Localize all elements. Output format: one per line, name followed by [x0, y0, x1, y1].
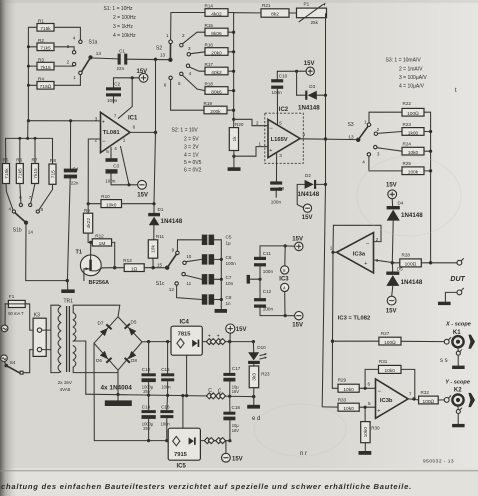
svg-text:4: 4 [73, 36, 76, 41]
wire IC3a feedback loop [331, 225, 381, 254]
svg-text:R33: R33 [338, 398, 347, 403]
svg-text:S2: 1 = 10V: S2: 1 = 10V [172, 128, 199, 134]
svg-text:BF256A: BF256A [89, 280, 110, 286]
op-amp IC3a [330, 233, 379, 273]
svg-text:100n: 100n [107, 98, 118, 103]
svg-text:C16: C16 [161, 404, 170, 409]
svg-text:R4: R4 [38, 77, 44, 82]
capacitor C5 1u [202, 234, 232, 245]
connector clips 0V rail [206, 388, 225, 399]
svg-text:10k0: 10k0 [363, 427, 369, 438]
svg-text:C3: C3 [113, 164, 119, 169]
transformer TR1 [51, 299, 120, 395]
switch S3 [348, 119, 380, 164]
svg-text:6: 6 [368, 381, 371, 386]
svg-text:5 = 0V5: 5 = 0V5 [184, 160, 202, 166]
svg-text:4: 4 [114, 146, 117, 151]
wire R6 to S1b c6 [20, 184, 21, 204]
svg-text:100n: 100n [161, 385, 171, 390]
svg-text:22n: 22n [117, 66, 125, 71]
svg-text:4 = 10kHz: 4 = 10kHz [113, 33, 136, 39]
op-amp IC2 L165V [268, 107, 306, 158]
switch S1b [9, 195, 44, 234]
svg-text:4k22: 4k22 [86, 218, 92, 229]
svg-text:100k: 100k [408, 170, 419, 176]
wire S1c c12 to C8 [177, 285, 202, 299]
svg-text:6 = 0V2: 6 = 0V2 [184, 168, 202, 174]
wire S1c c11 to C7 [185, 275, 201, 279]
svg-text:D10: D10 [257, 345, 266, 350]
svg-text:1: 1 [330, 245, 333, 250]
svg-text:100n: 100n [263, 269, 274, 274]
svg-text:R19: R19 [204, 101, 213, 106]
wire S2 c6 to R19 [171, 80, 204, 111]
svg-text:+: + [102, 120, 105, 126]
S3 current legend [386, 58, 428, 90]
regulator IC5 7915 [168, 396, 200, 470]
AC terminal upper [1, 304, 8, 332]
svg-text:2: 2 [67, 60, 70, 65]
svg-text:P1: P1 [304, 2, 310, 7]
svg-text:X - scope: X - scope [445, 321, 471, 327]
svg-text:R1: R1 [38, 18, 44, 23]
wire +15 rail to D10 [230, 340, 255, 343]
svg-text:C7: C7 [226, 275, 232, 280]
svg-text:R28: R28 [402, 252, 411, 257]
svg-text:2 = 100Hz: 2 = 100Hz [113, 15, 136, 21]
svg-text:22n: 22n [71, 181, 79, 186]
svg-text:R25: R25 [403, 161, 412, 166]
svg-text:+: + [364, 261, 367, 267]
wire IC3a output vertical (node X) [331, 225, 338, 388]
resistor R14 [205, 4, 229, 18]
svg-text:16V: 16V [232, 389, 240, 394]
svg-text:C10: C10 [279, 74, 288, 79]
capacitor C4 22n [64, 121, 79, 281]
svg-text:20k0: 20k0 [211, 50, 222, 56]
svg-text:15V: 15V [386, 309, 397, 315]
svg-text:D1: D1 [158, 207, 164, 212]
op-amp IC2 dashed box [265, 113, 304, 163]
resistor R24 [402, 142, 424, 156]
wire S1b pole to gate node [26, 225, 69, 283]
svg-text:R8: R8 [50, 158, 56, 163]
svg-text:D6: D6 [96, 358, 102, 363]
wire S3 c4 to R25 [369, 156, 402, 171]
svg-text:S4: S4 [10, 360, 16, 365]
svg-text:100Ω: 100Ω [384, 340, 396, 346]
svg-text:2x 15V: 2x 15V [58, 380, 73, 385]
svg-text:S3: 1 = 10mA/V: S3: 1 = 10mA/V [386, 58, 422, 64]
svg-text:1: 1 [364, 119, 367, 124]
svg-text:IC3 = TL082: IC3 = TL082 [338, 315, 370, 321]
svg-text:C2: C2 [114, 82, 120, 87]
svg-text:15V: 15V [292, 322, 303, 328]
supply +15V above D4 [386, 183, 397, 206]
svg-text:4: 4 [189, 71, 192, 76]
DUT terminal lower with ground [438, 288, 464, 305]
svg-text:D5: D5 [397, 267, 403, 272]
svg-text:D5: D5 [131, 320, 137, 325]
switch S1a [67, 36, 102, 80]
svg-text:R30: R30 [371, 425, 380, 430]
svg-text:1N4148: 1N4148 [298, 105, 320, 112]
svg-text:R16: R16 [205, 43, 214, 48]
wire S2 c4 to R17 [190, 67, 205, 71]
svg-text:4k02: 4k02 [211, 11, 222, 17]
wire IC2 output to S3 [300, 137, 358, 140]
resistor R9 [83, 204, 92, 233]
wire S1c c9 to C5 [177, 240, 201, 251]
wire left bus of R1-R4 [27, 27, 37, 120]
svg-text:3 = 1kHz: 3 = 1kHz [113, 24, 133, 30]
wire IC2 pin5 to C10 [276, 89, 278, 125]
svg-text:715k: 715k [40, 26, 51, 32]
potentiometer P1 [289, 2, 327, 26]
svg-text:C13: C13 [142, 367, 151, 372]
svg-text:71k5: 71k5 [18, 168, 24, 179]
svg-text:R17: R17 [205, 62, 214, 67]
label X - scope [445, 321, 471, 327]
resistor R21 [234, 3, 289, 18]
svg-text:5: 5 [279, 120, 282, 125]
capacitor C11 100n [254, 246, 285, 281]
supply +15V at IC1 [114, 69, 148, 82]
DUT terminal upper [457, 259, 464, 266]
capacitor C17 10u [223, 342, 240, 397]
svg-text:6: 6 [133, 125, 136, 130]
diode D2 [297, 173, 327, 207]
svg-text:s s: s s [440, 358, 448, 364]
capacitor C8 1n [202, 294, 232, 306]
switch S2 [156, 33, 192, 88]
caption rule [0, 470, 478, 472]
wire long vertical from P1 down (node B) [322, 13, 326, 407]
capacitor C12 100n [254, 279, 287, 317]
svg-text:10k0: 10k0 [343, 387, 354, 393]
svg-text:15V: 15V [304, 61, 315, 67]
svg-text:−: − [378, 389, 382, 395]
connector K3 [33, 312, 51, 356]
svg-text:−: − [269, 126, 273, 132]
resistor R11 [148, 234, 164, 268]
ground bar below R23 [247, 397, 260, 409]
capacitor C9 100n [270, 181, 284, 204]
resistor R27 [333, 331, 445, 346]
wire node A to IC1 + input [27, 119, 101, 122]
LED D10 [248, 342, 267, 364]
supply +15V at IC2 [277, 61, 314, 75]
svg-text:15V: 15V [137, 192, 148, 198]
diode D3 [297, 71, 328, 111]
svg-text:K3: K3 [34, 312, 40, 318]
svg-text:14: 14 [28, 229, 34, 234]
resistor R18 [205, 82, 229, 96]
svg-text:11: 11 [186, 281, 191, 286]
wire right bus of R14-R19 [227, 13, 235, 128]
switch S1c [156, 248, 192, 293]
svg-text:3: 3 [377, 151, 380, 156]
svg-text:R27: R27 [381, 331, 390, 336]
svg-text:+: + [269, 148, 272, 154]
resistor R22 [402, 101, 424, 117]
wire bridge - down to -raw rail [94, 343, 168, 442]
resistor R1 [37, 18, 54, 32]
wire S1c c10 to C6 [186, 259, 202, 261]
fuse F1 [5, 294, 29, 316]
svg-text:4: 4 [303, 132, 306, 137]
svg-text:C12: C12 [263, 289, 272, 294]
svg-text:D2: D2 [305, 173, 311, 178]
svg-text:5: 5 [106, 149, 109, 154]
svg-text:−: − [366, 241, 370, 247]
svg-text:R12: R12 [95, 233, 104, 238]
resistor R20 [229, 122, 244, 167]
regulator IC4 7815 [171, 320, 202, 396]
svg-text:1µ: 1µ [226, 241, 232, 246]
wire S3 c3 to R24 [377, 148, 402, 152]
wire R4 to S1a contact 1 [54, 75, 80, 86]
wire S1a pole to C1 [93, 57, 118, 60]
svg-text:R14: R14 [205, 4, 214, 9]
svg-text:4 = 1V: 4 = 1V [184, 153, 199, 159]
svg-text:F1: F1 [9, 294, 15, 299]
IC3 supply bubbles [279, 246, 289, 316]
svg-text:S3: S3 [348, 122, 354, 128]
svg-text:C5: C5 [226, 234, 232, 239]
svg-text:25k: 25k [311, 20, 319, 25]
svg-text:4: 4 [9, 207, 12, 212]
wire R1 to S1a contact 4 [54, 27, 80, 40]
wire S2 c2 to R15 [183, 32, 205, 44]
svg-text:C9: C9 [278, 186, 284, 191]
svg-text:13: 13 [96, 51, 102, 56]
svg-text:200k: 200k [210, 109, 221, 115]
svg-text:R29: R29 [338, 377, 347, 382]
svg-text:15V: 15V [292, 236, 303, 242]
ground bar below R20 [228, 167, 241, 171]
svg-text:e d: e d [252, 416, 260, 422]
svg-text:2: 2 [95, 137, 98, 142]
resistor R2 [37, 38, 54, 52]
svg-text:4 = 10µA/V: 4 = 10µA/V [399, 84, 425, 90]
svg-text:10k0: 10k0 [106, 202, 117, 208]
svg-text:3 = 2V: 3 = 2V [184, 145, 199, 151]
svg-text:715: 715 [50, 170, 56, 178]
svg-text:TL081: TL081 [103, 130, 121, 136]
svg-text:2 = 5V: 2 = 5V [184, 137, 199, 143]
diode D6 [96, 351, 112, 364]
label IC3 = TL082 [338, 315, 370, 321]
resistor R31 feedback [365, 359, 415, 399]
svg-text:S1: 1 = 10Hz: S1: 1 = 10Hz [104, 6, 134, 12]
svg-text:D7: D7 [98, 320, 104, 325]
resistor R4 [37, 77, 54, 91]
svg-text:1k: 1k [232, 136, 238, 142]
svg-text:15V: 15V [302, 215, 313, 221]
svg-text:S1c: S1c [156, 281, 165, 287]
svg-text:7k15: 7k15 [40, 65, 51, 71]
svg-text:R21: R21 [262, 3, 271, 8]
supply +15V right of IC4 [226, 324, 247, 343]
svg-text:25V: 25V [143, 426, 151, 431]
diode D5 clamp [386, 263, 423, 296]
svg-text:1M: 1M [99, 241, 106, 247]
svg-text:R2: R2 [38, 38, 44, 43]
svg-text:+: + [377, 409, 380, 415]
wire R5 to S1b c4 [6, 184, 13, 211]
bridge rectifier diamond [94, 317, 142, 370]
diode D4 [387, 201, 424, 265]
svg-text:1: 1 [259, 141, 262, 146]
resistor R10 [87, 194, 156, 208]
svg-text:C8: C8 [226, 295, 232, 300]
BNC socket K1 [444, 330, 475, 369]
svg-text:3: 3 [95, 116, 98, 121]
svg-text:C14: C14 [142, 404, 151, 409]
svg-text:2 = 1mA/V: 2 = 1mA/V [399, 66, 423, 72]
svg-text:T1: T1 [76, 250, 82, 256]
svg-text:S1b: S1b [13, 227, 22, 233]
svg-text:R18: R18 [205, 82, 214, 87]
svg-text:10k: 10k [151, 245, 157, 253]
wire S3 c1 to R22 [369, 112, 402, 123]
svg-text:715k: 715k [4, 168, 10, 179]
resistor R23 [402, 122, 424, 136]
wire pin4 diagonal [121, 147, 131, 187]
svg-text:80k6: 80k6 [211, 89, 222, 95]
svg-text:R31: R31 [379, 359, 388, 364]
resistor R30 [359, 407, 381, 455]
svg-text:71k5: 71k5 [40, 46, 51, 52]
svg-text:−: − [102, 139, 106, 145]
wire IC1 output to node [130, 131, 157, 134]
resistor R8 [49, 158, 56, 184]
svg-text:7k15: 7k15 [33, 168, 39, 179]
svg-text:IC3b: IC3b [380, 398, 393, 404]
svg-text:DUT: DUT [450, 276, 465, 283]
wire S2 c3 to R16 [191, 52, 206, 54]
resistor R33 [322, 398, 375, 412]
capacitor C18 10u [223, 396, 240, 442]
capacitor C6 100n [202, 254, 236, 266]
resistor R32 [408, 390, 444, 405]
resistor R3 [37, 57, 54, 71]
svg-text:1: 1 [166, 33, 169, 38]
svg-text:15: 15 [157, 263, 163, 268]
svg-text:5: 5 [368, 401, 371, 406]
svg-text:R7: R7 [32, 158, 38, 163]
svg-text:12: 12 [169, 287, 175, 292]
supply +15V above C11 [284, 236, 303, 250]
svg-text:R23: R23 [403, 122, 412, 127]
wire R20 bottom node to IC2 pin1 [234, 141, 268, 156]
resistor R28 [392, 252, 457, 267]
svg-text:4VA5: 4VA5 [60, 387, 71, 392]
svg-text:10k0: 10k0 [343, 406, 354, 412]
svg-text:100Ω: 100Ω [407, 111, 419, 117]
capacitor C13 1000u [142, 342, 156, 396]
svg-text:K2: K2 [454, 388, 462, 394]
svg-text:10n: 10n [226, 281, 234, 286]
op-amp IC1 [95, 112, 139, 154]
svg-text:IC1: IC1 [128, 116, 138, 122]
resistor R29 [338, 377, 376, 393]
svg-text:15V: 15V [232, 457, 243, 463]
diode D7 [98, 320, 113, 336]
svg-text:D8: D8 [131, 358, 137, 363]
svg-text:D4: D4 [398, 201, 404, 206]
capacitor C2 100n [106, 78, 121, 103]
svg-text:15V: 15V [386, 183, 397, 189]
wire R20 node to IC2 pin2 [234, 119, 268, 125]
svg-text:2: 2 [377, 127, 380, 132]
svg-text:R5: R5 [3, 158, 9, 163]
svg-text:C17: C17 [232, 366, 241, 371]
wire R7 to S1b c7 [31, 184, 35, 204]
wire bridge + to IC4 [142, 340, 171, 343]
svg-text:IC2: IC2 [279, 107, 289, 113]
svg-text:IC5: IC5 [177, 463, 187, 469]
svg-text:2: 2 [256, 121, 259, 126]
svg-text:9: 9 [172, 248, 175, 253]
wire R2 to S1a contact 3 [54, 47, 74, 51]
resistor R23 LED [249, 364, 270, 397]
supply -15V right of IC5 [222, 441, 243, 463]
svg-text:R15: R15 [205, 23, 214, 28]
resistor R5 [3, 158, 10, 184]
svg-text:IC3: IC3 [279, 276, 289, 282]
resistor R15 [205, 23, 229, 37]
supply -15V at IC1 [137, 180, 148, 198]
wire bridge AC2 to ground bar [105, 370, 132, 406]
svg-text:n r: n r [300, 451, 307, 457]
S2 voltage legend [172, 128, 202, 174]
supply -15V below C12 [285, 312, 303, 329]
capacitor C1 22n [117, 49, 128, 72]
wire IC2 pin3 to C9 [276, 153, 278, 182]
AC terminal lower [1, 355, 8, 365]
svg-text:IC4: IC4 [180, 320, 190, 326]
svg-text:100n: 100n [263, 306, 274, 311]
resistor R19 [204, 101, 228, 115]
wire node A branch to R5-R8 bus [6, 121, 53, 164]
svg-text:1N4148: 1N4148 [161, 218, 183, 225]
capacitor C14 1000u [142, 395, 156, 441]
svg-text:3: 3 [67, 44, 70, 49]
svg-text:40k2: 40k2 [211, 70, 222, 76]
svg-text:7915: 7915 [174, 452, 188, 458]
svg-text:10k0: 10k0 [384, 368, 395, 374]
S1 frequency legend [104, 6, 137, 39]
transistor T1 BF256A [76, 242, 115, 286]
svg-text:L165V: L165V [271, 137, 288, 143]
0V rail from centre tap [86, 394, 256, 399]
wire S2 c1 to R14 [171, 13, 205, 41]
svg-text:2: 2 [182, 33, 185, 38]
connector clips +15 rail [202, 334, 229, 345]
wire vertical node13 down through D1 chain [154, 59, 156, 213]
svg-text:8k2: 8k2 [271, 12, 279, 18]
svg-text:3k3: 3k3 [252, 373, 258, 381]
svg-text:5: 5 [178, 81, 181, 86]
svg-text:1Ω: 1Ω [131, 266, 138, 272]
capacitor C15 100n [161, 342, 174, 396]
svg-text:R32: R32 [421, 390, 430, 395]
wire R3 to S1a contact 2 [54, 65, 74, 67]
BNC socket K2 [444, 388, 475, 428]
svg-text:8k06: 8k06 [211, 31, 222, 37]
